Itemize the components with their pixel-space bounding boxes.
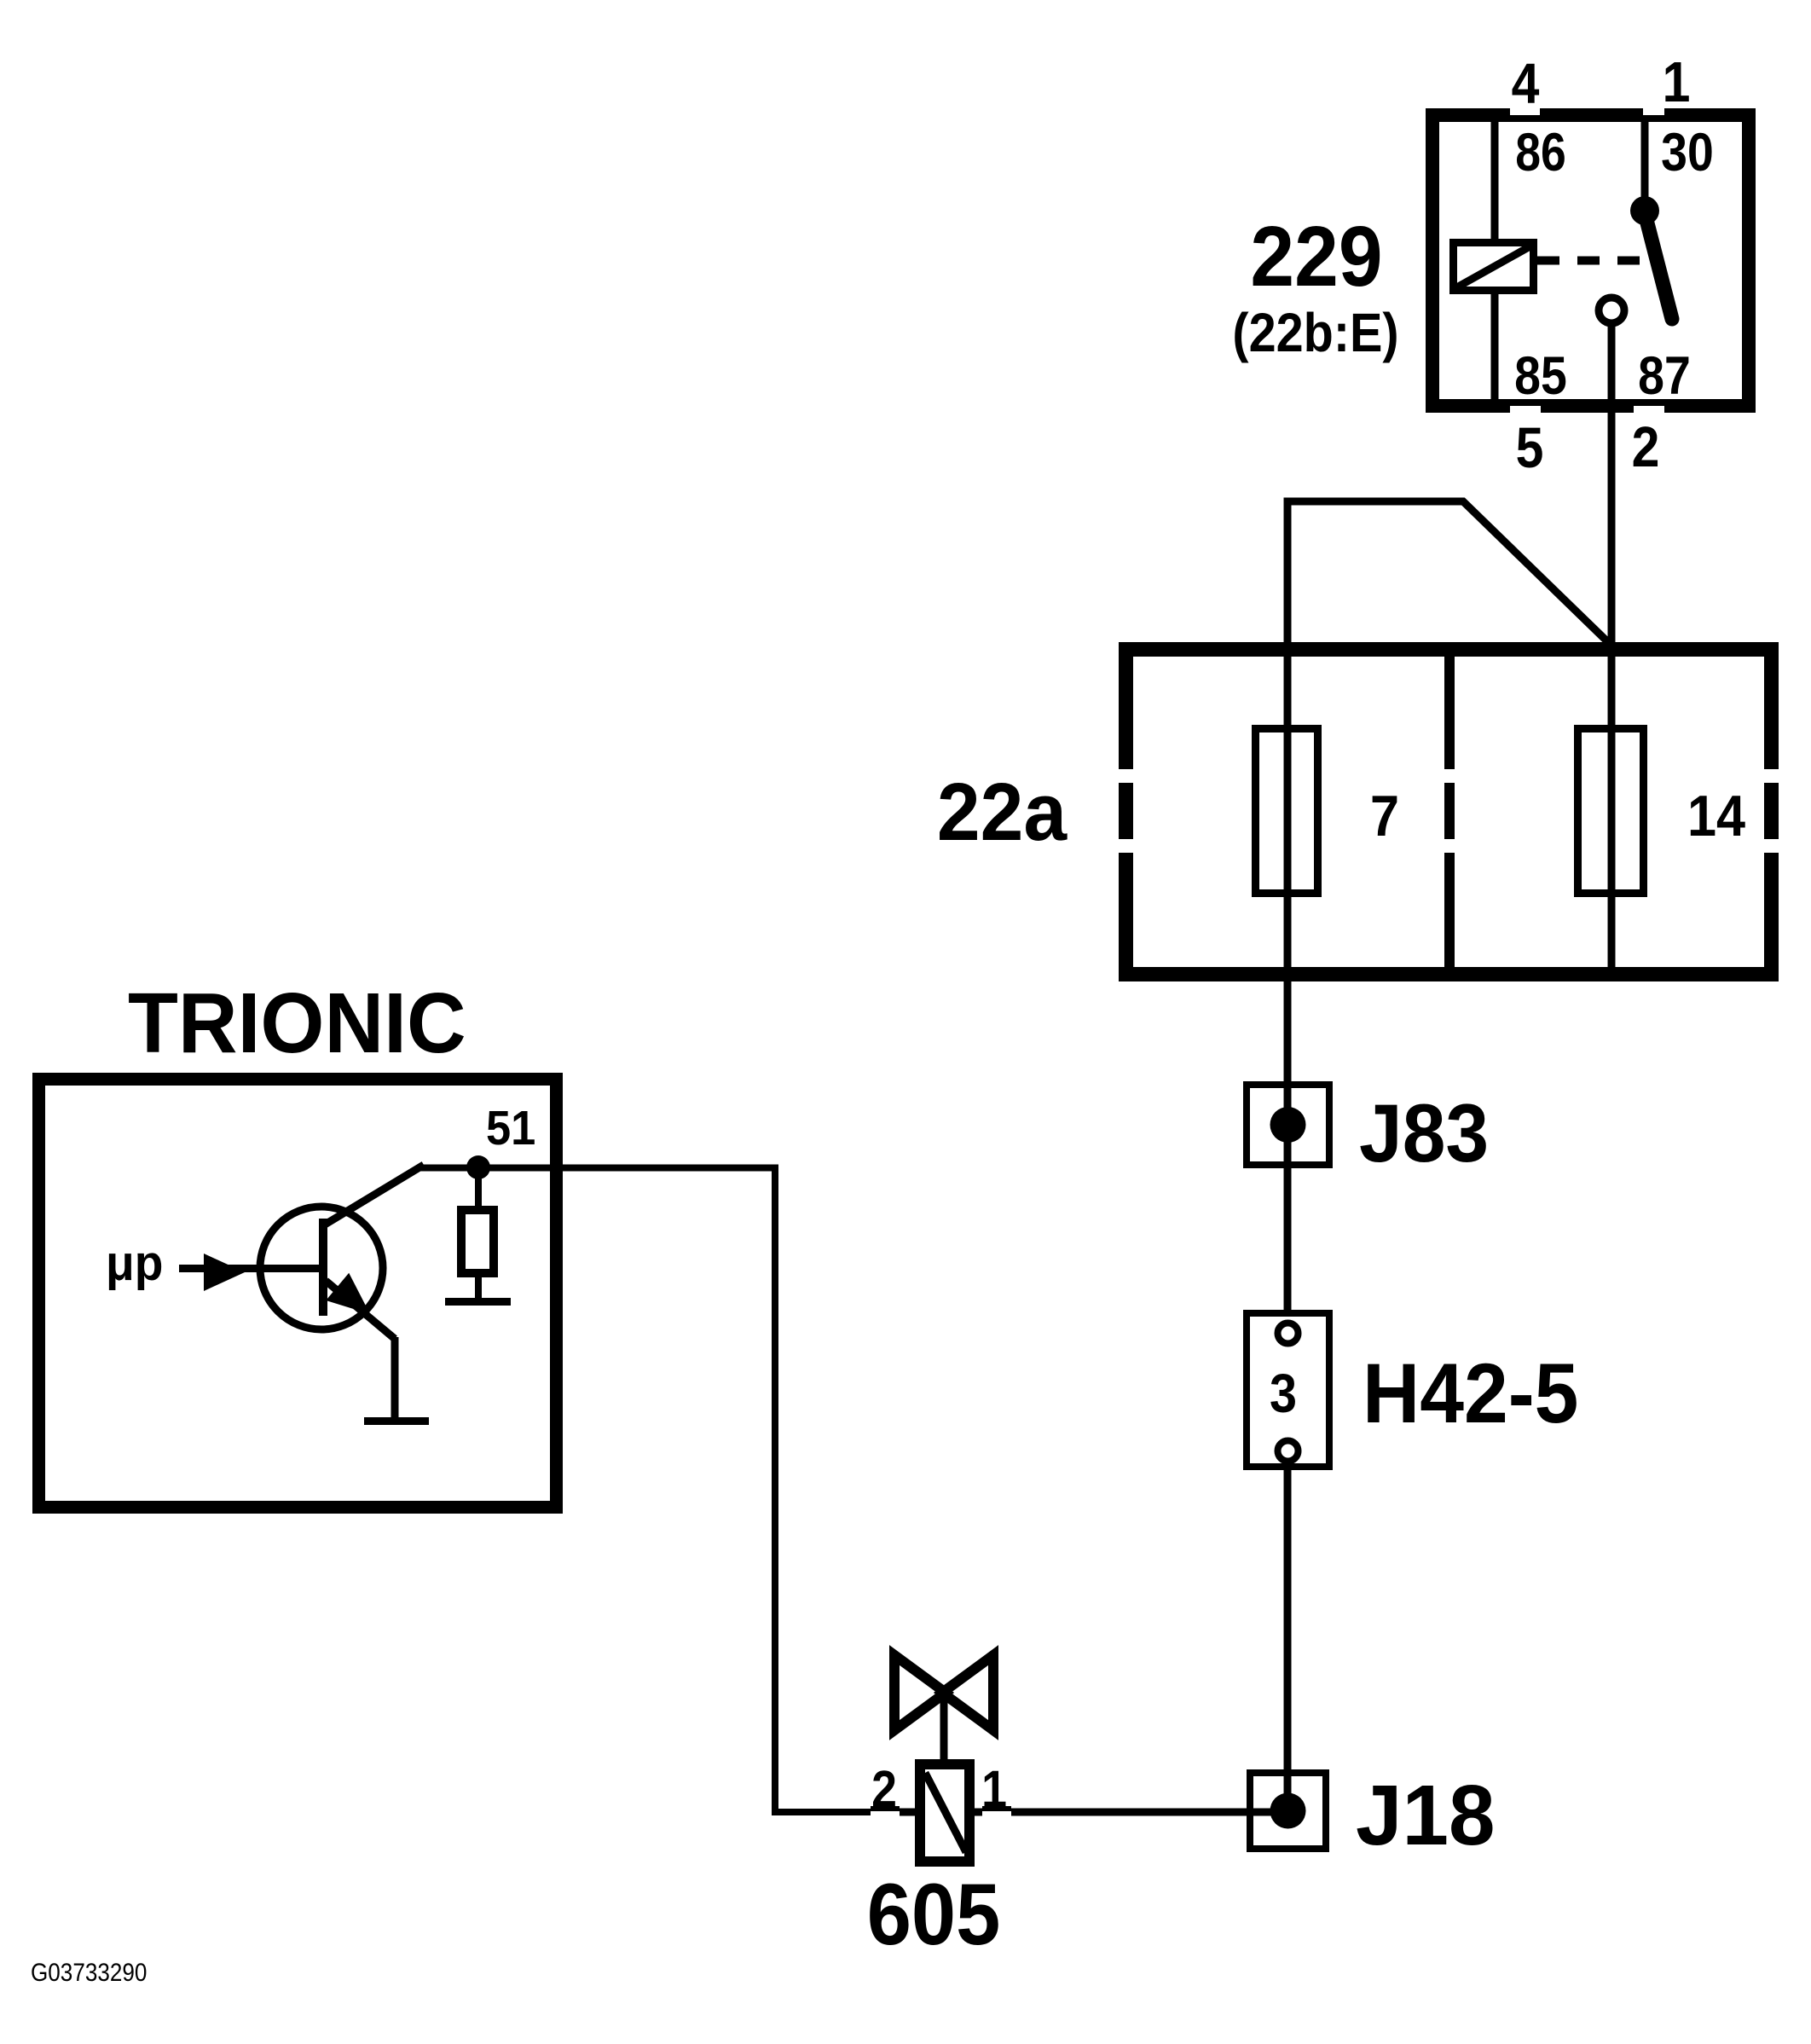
wire TRIONIC 51 to solenoid 605 pin 2 — [420, 1168, 915, 1813]
svg-text:2: 2 — [871, 1761, 897, 1819]
ground (emitter) — [364, 1417, 429, 1425]
node 51 junction — [466, 1155, 490, 1179]
wire relay pin 1/30 — [1641, 121, 1649, 214]
svg-text:G03733290: G03733290 — [31, 1958, 147, 1986]
svg-text:J83: J83 — [1359, 1086, 1489, 1178]
relay contact 87 — [1599, 298, 1624, 323]
svg-text:4: 4 — [1512, 53, 1540, 116]
svg-text:86: 86 — [1515, 123, 1566, 182]
svg-text:(22b:E): (22b:E) — [1232, 302, 1398, 362]
svg-text:5: 5 — [1516, 417, 1544, 480]
svg-text:7: 7 — [1370, 783, 1399, 848]
svg-text:J18: J18 — [1356, 1767, 1496, 1862]
svg-text:14: 14 — [1687, 783, 1745, 848]
fuse 7 — [1256, 729, 1318, 894]
svg-text:605: 605 — [867, 1865, 1001, 1962]
relay coil-contact dashed link — [1537, 257, 1661, 265]
svg-text:H42-5: H42-5 — [1363, 1346, 1578, 1440]
svg-text:2: 2 — [1632, 416, 1660, 479]
svg-text:229: 229 — [1250, 210, 1382, 304]
svg-text:85: 85 — [1514, 345, 1567, 406]
wire relay pin 5/85 — [1491, 291, 1499, 400]
fuse box 22a — [1117, 650, 1780, 975]
microprocessor input arrow — [179, 1254, 319, 1291]
svg-text:TRIONIC: TRIONIC — [128, 975, 466, 1070]
svg-text:3: 3 — [1270, 1363, 1297, 1423]
resistor R1 — [461, 1167, 494, 1300]
connector H42-5 — [1247, 1313, 1329, 1467]
transistor Q1 — [260, 1165, 424, 1421]
svg-text:30: 30 — [1661, 122, 1714, 182]
svg-text:1: 1 — [1663, 51, 1691, 114]
wire H42-5 to J18 — [1284, 1470, 1292, 1810]
relay coil — [1454, 243, 1534, 291]
splice J18 — [1250, 1773, 1326, 1849]
fuse 14 — [1578, 729, 1644, 894]
TRIONIC box — [39, 1080, 557, 1508]
wire relay pin 4/86 — [1491, 121, 1499, 242]
relay switch arm — [1645, 213, 1672, 319]
svg-text:μp: μp — [106, 1236, 163, 1291]
svg-text:22a: 22a — [937, 766, 1068, 858]
wire relay pin 2/87 to fuse 14 — [1608, 327, 1616, 974]
wire J18 to solenoid 605 pin 1 — [975, 1806, 1287, 1812]
relay U229 box — [1432, 108, 1749, 413]
svg-text:51: 51 — [486, 1100, 535, 1155]
ground (resistor) — [445, 1298, 511, 1306]
svg-text:1: 1 — [981, 1761, 1007, 1819]
wire J83 to H42-5 — [1284, 1168, 1292, 1310]
relay switch pivot — [1630, 196, 1659, 225]
splice J83 — [1247, 1085, 1329, 1165]
wire fuse 7 to relay 87 bypass and down to H42-5 — [1287, 501, 1611, 1310]
solenoid valve 605 — [894, 1655, 993, 1862]
svg-text:87: 87 — [1638, 345, 1691, 406]
